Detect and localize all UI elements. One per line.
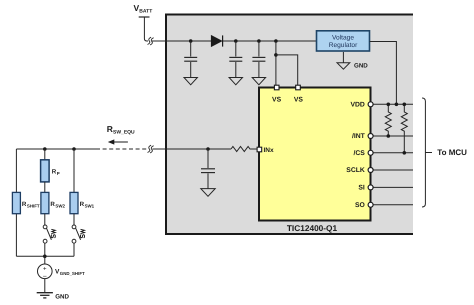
svg-text:To MCU: To MCU — [437, 148, 467, 157]
pin SO — [368, 202, 373, 207]
svg-text:SW1: SW1 — [85, 204, 95, 209]
pin VS1 — [274, 85, 279, 90]
svg-text:GND_SHIFT: GND_SHIFT — [60, 271, 85, 276]
ground (C2) — [229, 78, 242, 85]
svg-text:SHIFT: SHIFT — [27, 204, 40, 209]
resistor RSHIFT — [12, 192, 20, 213]
junction dot — [206, 147, 210, 151]
ground (regulator) — [337, 52, 350, 69]
junction dot — [387, 134, 391, 138]
svg-text:SO: SO — [355, 202, 365, 209]
svg-text:SI: SI — [358, 185, 365, 192]
capacitor C1 — [184, 41, 197, 77]
ground (C1) — [184, 78, 197, 85]
wire /INT — [371, 135, 413, 137]
pin /CS — [368, 150, 373, 155]
svg-text:SW_EQU: SW_EQU — [113, 130, 135, 136]
resistor RP — [41, 160, 50, 182]
svg-text:P: P — [57, 171, 60, 176]
junction dot — [403, 103, 407, 107]
switch SW2 — [43, 225, 51, 243]
label VGND_SHIFT — [55, 268, 85, 276]
svg-text:VDD: VDD — [350, 101, 364, 108]
pin VS2 — [296, 85, 301, 90]
wire col2 top — [44, 149, 46, 160]
source VGND_SHIFT — [38, 264, 53, 281]
junction dot — [43, 147, 47, 151]
junction dot — [234, 39, 238, 43]
left network bottom wire — [16, 255, 74, 257]
wire VBATT vertical drop — [144, 17, 148, 41]
resistor pullup R1 — [385, 104, 391, 136]
svg-text:Regulator: Regulator — [329, 42, 358, 49]
wire col2 to switch — [44, 214, 46, 225]
capacitor C2 — [229, 41, 242, 77]
junction dot — [403, 151, 407, 155]
svg-text:SCLK: SCLK — [346, 167, 365, 174]
wire col2 bottom — [44, 243, 46, 256]
ground (earth) — [37, 293, 53, 298]
ground (C3) — [252, 78, 265, 85]
junction dot — [395, 103, 399, 107]
resistor pullup R2 — [401, 104, 407, 153]
wire INx line (dashed part) — [96, 148, 147, 150]
wire col2 mid — [44, 182, 46, 193]
break squiggle on INx wire — [148, 145, 152, 152]
label SW (for SW2) — [51, 229, 55, 237]
ground (C4) — [201, 189, 215, 197]
label SW (for SW1) — [80, 229, 84, 237]
pin INx — [257, 147, 262, 152]
wire col3 bottom — [73, 243, 75, 256]
svg-text:TIC12400-Q1: TIC12400-Q1 — [287, 223, 338, 233]
junction dot — [72, 147, 76, 151]
junction dot — [43, 254, 47, 258]
wire source to GND — [44, 279, 46, 293]
wire VDD — [371, 103, 413, 105]
junction dot — [189, 39, 193, 43]
svg-text:SW2: SW2 — [55, 204, 65, 209]
IC U1 TIC12400-Q1 — [259, 88, 371, 221]
VBATT rail tick — [139, 16, 150, 18]
svg-text:/CS: /CS — [353, 150, 365, 157]
wire SO — [371, 204, 413, 206]
junction dot — [257, 39, 261, 43]
svg-text:VS: VS — [294, 97, 304, 104]
wire INx line (solid left part) — [16, 148, 96, 150]
break squiggle on VBATT wire — [148, 37, 152, 44]
wire VS1 vertical — [275, 41, 277, 87]
svg-text:BATT: BATT — [139, 9, 152, 15]
node VBATT label — [134, 3, 153, 15]
svg-text:GND: GND — [55, 293, 69, 300]
pin SI — [368, 185, 373, 190]
resistor RSW2 — [41, 192, 49, 213]
wire to VGND_SHIFT source — [44, 256, 46, 264]
svg-text:GND: GND — [354, 63, 368, 70]
wire col3 top — [73, 149, 75, 193]
pin SCLK — [368, 168, 373, 173]
junction dot (VS branch) — [274, 39, 278, 43]
capacitor C3 — [252, 41, 265, 77]
right pin labels — [346, 101, 365, 208]
svg-text:Voltage: Voltage — [332, 35, 354, 42]
pin VDD — [368, 102, 373, 107]
wire VS2 branch — [276, 55, 298, 87]
wire regulator output to VDD — [370, 42, 397, 105]
node RSW_EQU label — [107, 124, 135, 136]
resistor RINx (series) — [231, 147, 257, 152]
svg-text:+: + — [43, 266, 47, 272]
module box border (top, left, bottom) — [166, 15, 413, 235]
wire /CS — [371, 152, 413, 154]
voltage regulator U2 — [317, 31, 370, 51]
wire SCLK — [371, 169, 413, 171]
pin /INT — [368, 134, 373, 139]
svg-text:INx: INx — [264, 147, 275, 154]
wire INx line into module — [153, 148, 232, 150]
junction dot — [387, 103, 391, 107]
switch SW1 — [72, 225, 81, 243]
junction dot — [274, 53, 278, 57]
module box (gray region) — [165, 14, 413, 235]
resistor RSW1 — [70, 192, 78, 213]
wire SI — [371, 186, 413, 188]
wire col3 to switch — [73, 214, 75, 225]
diode D1 — [211, 35, 222, 46]
capacitor C4 (INx filter) — [201, 149, 215, 188]
svg-text:VS: VS — [272, 97, 282, 104]
svg-text:/INT: /INT — [352, 133, 366, 140]
wire left column (RSHIFT branch) — [15, 149, 17, 256]
arrow RSW_EQU — [108, 139, 128, 144]
bracket to MCU — [422, 98, 432, 207]
wire main supply rail — [152, 40, 317, 42]
